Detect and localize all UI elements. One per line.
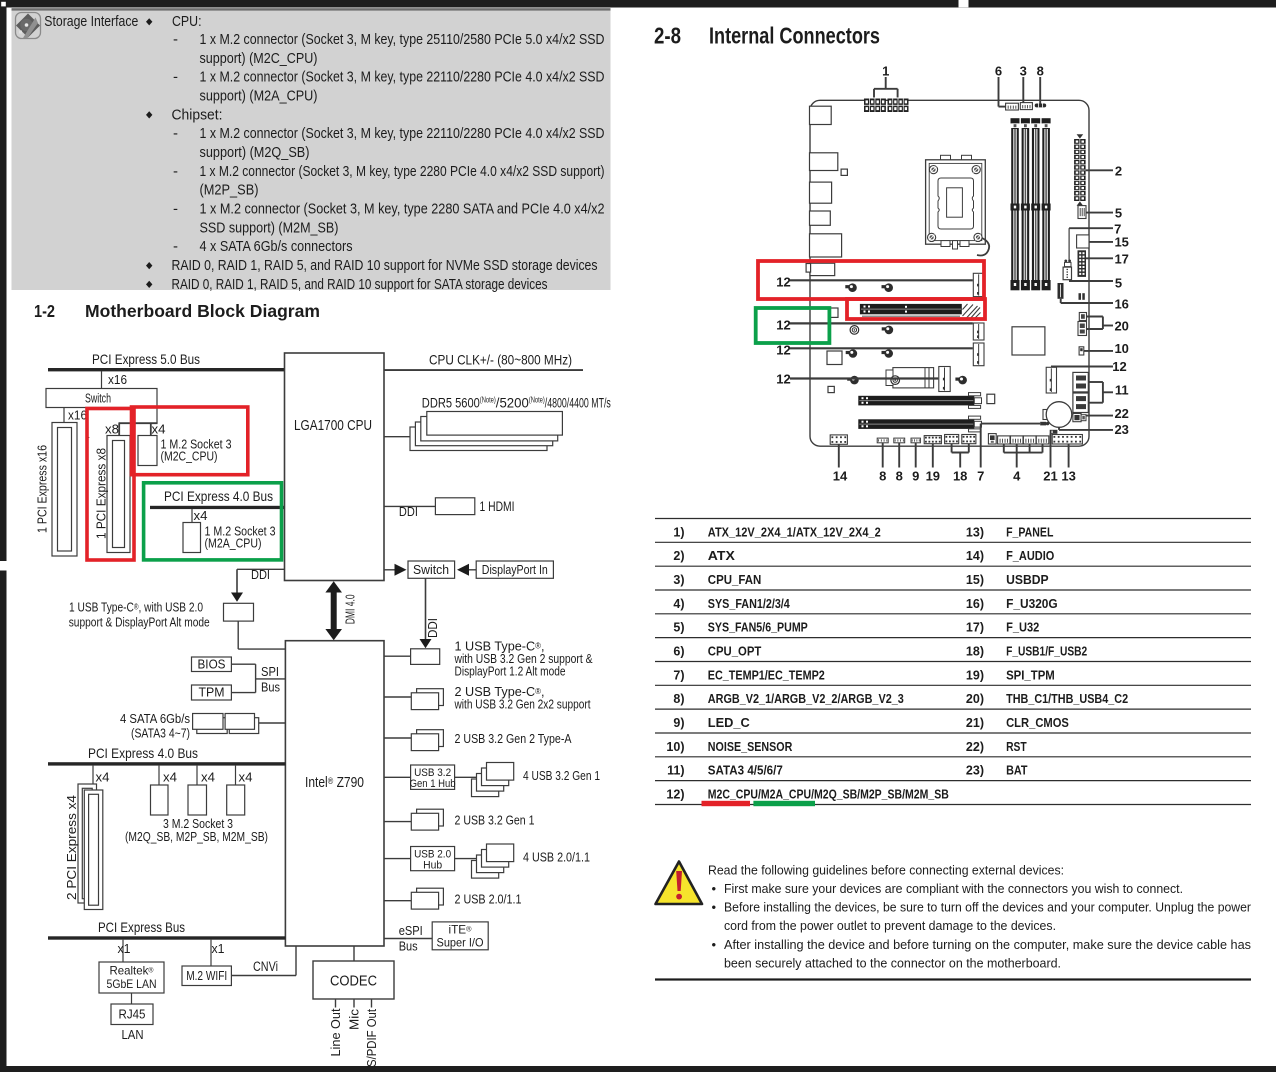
svg-text:RST: RST xyxy=(1006,740,1027,754)
svg-text:DDI: DDI xyxy=(251,567,270,582)
RJ45 box xyxy=(111,1004,153,1025)
svg-text:1 x M.2 connector (Socket 3, M: 1 x M.2 connector (Socket 3, M key, type… xyxy=(200,125,605,142)
spec panel top border xyxy=(12,8,611,10)
ARGB header 8a xyxy=(877,438,888,443)
svg-text:•: • xyxy=(712,881,717,896)
wire: Z790 to USB-C 2x2 xyxy=(384,696,411,698)
svg-text:5: 5 xyxy=(1115,275,1122,290)
svg-text:NOISE_SENSOR: NOISE_SENSOR xyxy=(708,740,793,754)
SYS_FAN4 connector xyxy=(1036,436,1049,444)
callout 8b line xyxy=(898,443,900,468)
svg-text:9: 9 xyxy=(912,468,919,483)
svg-text:DDR5 5600: DDR5 5600 xyxy=(422,394,480,410)
svg-text:5GbE LAN: 5GbE LAN xyxy=(107,977,157,991)
svg-text:RAID 0, RAID 1, RAID 5, and RA: RAID 0, RAID 1, RAID 5, and RAID 10 supp… xyxy=(172,276,548,293)
svg-text:9): 9) xyxy=(673,716,684,730)
svg-text:-: - xyxy=(173,69,178,86)
ARGB header 8b xyxy=(894,438,905,443)
M.2 row2 heatsink hatch xyxy=(963,304,981,320)
svg-text:Switch: Switch xyxy=(85,391,111,405)
M.2 row2 standoff rail xyxy=(862,315,960,317)
svg-text:(M2P_SB): (M2P_SB) xyxy=(200,182,259,199)
2 PCIe x4 slots xyxy=(78,784,103,910)
THB_C1 connector (20a) xyxy=(1079,313,1086,321)
svg-text:11: 11 xyxy=(1115,383,1129,398)
svg-text:16: 16 xyxy=(1114,297,1128,312)
label 1 M.2 Socket 3 (M2A_CPU) xyxy=(205,523,276,550)
svg-text:19: 19 xyxy=(926,468,940,483)
2 USB 3.2 Gen 1 boxes xyxy=(411,809,443,830)
iTE Super I/O box xyxy=(432,922,488,950)
svg-text:CODEC: CODEC xyxy=(330,974,377,990)
svg-text:2-8: 2-8 xyxy=(654,23,681,49)
svg-text:1 PCI Express x8: 1 PCI Express x8 xyxy=(94,448,109,539)
section title 1-2 Motherboard Block Diagram xyxy=(34,301,320,321)
wire: x1 stub LAN xyxy=(122,940,124,962)
M.2 row4 screw a xyxy=(847,376,859,385)
svg-text:Before installing the devices,: Before installing the devices, be sure t… xyxy=(724,900,1252,915)
callout 12 #2 line xyxy=(790,322,973,324)
svg-text:M.2 WIFI: M.2 WIFI xyxy=(186,968,227,983)
svg-text:1 PCI Express x16: 1 PCI Express x16 xyxy=(35,445,50,533)
svg-text:First make sure your devices a: First make sure your devices are complia… xyxy=(724,881,1183,896)
svg-text:F_AUDIO: F_AUDIO xyxy=(1006,549,1054,563)
M.2 row4 slot connector xyxy=(939,367,950,392)
svg-text:16): 16) xyxy=(966,597,984,611)
PCIe x16 slot upper (board) xyxy=(858,393,981,409)
svg-text:2 USB 3.2 Gen 1: 2 USB 3.2 Gen 1 xyxy=(455,813,535,828)
svg-text:PCI Express 4.0 Bus: PCI Express 4.0 Bus xyxy=(164,488,273,504)
svg-text:BAT: BAT xyxy=(1006,764,1028,778)
top-middle white handle square xyxy=(959,0,969,7)
label eSPI Bus xyxy=(399,923,423,954)
svg-text:Internal Connectors: Internal Connectors xyxy=(709,23,880,49)
svg-text:x8: x8 xyxy=(105,421,119,436)
svg-text:BIOS: BIOS xyxy=(198,656,226,671)
callout 4 bracket xyxy=(1004,444,1043,468)
callout 15 line xyxy=(1089,241,1113,243)
arrow into USB-C r1 from DP drop xyxy=(0,0,1,1)
ATX 12V connector 1 (left block) xyxy=(864,99,886,113)
labels x4 row xyxy=(96,770,253,785)
svg-text:Chipset:: Chipset: xyxy=(172,106,223,123)
label 1 USB Type-C Gen2 DP1.2 xyxy=(454,639,593,679)
svg-text:15: 15 xyxy=(1114,235,1128,250)
DMI 4.0 double arrow xyxy=(325,581,342,640)
green highlight 12 label (board) xyxy=(756,308,830,343)
SATA3 ports 4/5 (11a) xyxy=(1073,372,1088,392)
svg-text:Bus: Bus xyxy=(399,939,418,954)
svg-text:After installing the device an: After installing the device and before t… xyxy=(724,937,1251,952)
rear panel block 2 xyxy=(810,153,838,171)
svg-text:CPU:: CPU: xyxy=(172,13,202,30)
2 USB 3.2 Gen 2 Type-A boxes xyxy=(411,730,443,751)
label 4 SATA 6Gb/s (SATA3 4~7) xyxy=(120,711,190,741)
wire: PCI Express 4.0 bus (lower) xyxy=(48,762,285,765)
wire: hub to 4xUSB2.0 xyxy=(455,858,487,860)
SYS_FAN2 connector xyxy=(1011,436,1024,444)
DIMM slot 3 xyxy=(1031,118,1040,290)
connector table rows (left column) xyxy=(666,525,948,801)
spec bullet CPU xyxy=(146,13,202,30)
svg-text:S/PDIF Out: S/PDIF Out xyxy=(364,1009,379,1067)
svg-text:Line Out: Line Out xyxy=(328,1008,343,1056)
svg-text:-: - xyxy=(173,125,178,142)
wire: CNVi link xyxy=(231,946,296,976)
svg-text:12: 12 xyxy=(1112,359,1126,374)
wire: x1 stub WIFI xyxy=(210,940,212,966)
2 USB 2.0/1.1 boxes xyxy=(411,888,443,909)
ATX 12V connector 1 (right block) xyxy=(888,99,909,113)
Switch box (DisplayPort) xyxy=(408,561,455,578)
callout 12 #1 line xyxy=(790,279,973,281)
svg-text:x4: x4 xyxy=(194,508,208,523)
svg-text:23): 23) xyxy=(966,764,984,778)
wire: PCI Express bus (bottom) xyxy=(48,936,285,939)
svg-text:8: 8 xyxy=(879,468,886,483)
svg-text:F_U320G: F_U320G xyxy=(1006,597,1058,611)
callout 23 line xyxy=(1059,427,1113,430)
rear panel block 3 xyxy=(810,182,832,203)
red highlight around PCIe x8 slot xyxy=(87,409,134,561)
svg-text:6): 6) xyxy=(673,644,684,658)
svg-text:12: 12 xyxy=(776,317,790,332)
wire: CPU CLK line xyxy=(384,369,583,371)
RST button (22) xyxy=(1073,414,1086,422)
svg-text:x1: x1 xyxy=(212,941,225,956)
SYS_FAN1 connector xyxy=(998,436,1010,444)
svg-text:DMI 4.0: DMI 4.0 xyxy=(343,594,358,624)
svg-text:•: • xyxy=(712,937,717,952)
svg-text:Realtek®: Realtek® xyxy=(110,964,155,978)
svg-text:F_U32: F_U32 xyxy=(1006,621,1039,635)
svg-text:11): 11) xyxy=(667,764,684,778)
label 1 USB Type-C with USB 2.0 support xyxy=(69,600,210,630)
SYS_FAN3 connector xyxy=(1023,436,1036,444)
connector table rules xyxy=(655,519,1251,805)
USB Type-C left port box xyxy=(224,603,254,621)
LGA1700 CPU socket xyxy=(926,155,990,255)
svg-text:x4: x4 xyxy=(96,770,110,785)
TPM box xyxy=(192,684,232,700)
svg-text:1): 1) xyxy=(673,525,684,539)
board hole square b xyxy=(828,386,834,392)
svg-text:1 HDMI: 1 HDMI xyxy=(480,499,515,514)
svg-text:18): 18) xyxy=(966,644,984,658)
red highlight M2C area (board) xyxy=(758,261,984,299)
svg-text:-: - xyxy=(173,201,178,218)
svg-text:x16: x16 xyxy=(108,372,127,387)
chipset heatsink square xyxy=(1012,327,1045,355)
wire+arrow: DP switch down to USB-C right xyxy=(420,578,432,648)
svg-text:4 USB 2.0/1.1: 4 USB 2.0/1.1 xyxy=(523,850,590,865)
svg-text:17: 17 xyxy=(1114,252,1128,267)
svg-text:Bus: Bus xyxy=(261,680,280,695)
callout 10 line xyxy=(1084,350,1113,352)
page left black bar xyxy=(0,0,7,1072)
svg-text:LGA1700 CPU: LGA1700 CPU xyxy=(294,417,372,434)
svg-text:support & DisplayPort Alt mode: support & DisplayPort Alt mode xyxy=(69,615,210,630)
svg-text:1: 1 xyxy=(882,64,889,79)
CPU_FAN connector (3) xyxy=(1020,103,1032,110)
callout 5 lower line xyxy=(1069,280,1113,282)
wire: USB-C left to Z790 xyxy=(238,621,285,649)
svg-text:4 x SATA 6Gb/s connectors: 4 x SATA 6Gb/s connectors xyxy=(200,238,353,255)
svg-text:4): 4) xyxy=(673,597,684,611)
section title 2-8 Internal Connectors xyxy=(654,23,880,49)
svg-text:(M2Q_SB, M2P_SB, M2M_SB): (M2Q_SB, M2P_SB, M2M_SB) xyxy=(125,829,268,844)
CPU_OPT fan connector (6) xyxy=(1006,103,1019,110)
red underline under M2C_CPU xyxy=(702,801,751,806)
svg-text:(SATA3 4~7): (SATA3 4~7) xyxy=(131,726,190,741)
svg-text:CPU_OPT: CPU_OPT xyxy=(708,644,762,658)
HDMI port box xyxy=(435,498,474,515)
svg-text:SPI: SPI xyxy=(261,664,279,679)
M.2 WIFI box xyxy=(182,966,231,986)
svg-text:21: 21 xyxy=(1043,468,1057,483)
svg-text:13: 13 xyxy=(1061,468,1075,483)
spec text list xyxy=(146,31,605,293)
svg-text:1 USB Type-C®, with USB 2.0: 1 USB Type-C®, with USB 2.0 xyxy=(69,600,203,615)
svg-text:1-2: 1-2 xyxy=(34,301,55,321)
svg-text:22): 22) xyxy=(966,740,984,754)
storage interface spec panel xyxy=(12,8,611,290)
svg-text:2: 2 xyxy=(1115,163,1122,178)
DIMM slot 2 xyxy=(1021,118,1030,290)
svg-text:14: 14 xyxy=(833,468,848,483)
svg-text:1 x M.2 connector (Socket 3, M: 1 x M.2 connector (Socket 3, M key, type… xyxy=(200,69,605,86)
svg-text:•: • xyxy=(712,900,717,915)
svg-text:4 SATA 6Gb/s: 4 SATA 6Gb/s xyxy=(120,711,190,726)
callout 7 lower line xyxy=(981,424,1040,468)
label SPI Bus xyxy=(261,664,280,695)
svg-text:2 USB 2.0/1.1: 2 USB 2.0/1.1 xyxy=(455,892,522,907)
connector table rows (right column) xyxy=(966,525,1128,777)
svg-text:1 x M.2 connector (Socket 3, M: 1 x M.2 connector (Socket 3, M key, type… xyxy=(200,163,605,180)
small box near green rect xyxy=(829,308,838,317)
wire: SATA to Z790 xyxy=(259,722,286,724)
svg-text:15): 15) xyxy=(966,573,984,587)
wire: Z790 to USB 3.2 Gen2 Type-A xyxy=(384,737,411,739)
green underline under M2A_CPU xyxy=(753,801,815,806)
callout 1 bracket xyxy=(874,77,898,98)
callout 2 line xyxy=(1086,169,1113,171)
wire+arrow: CPU DDI down to USB-C left xyxy=(231,569,285,602)
svg-text:eSPI: eSPI xyxy=(399,923,423,938)
svg-text:20): 20) xyxy=(966,692,984,706)
svg-text:DDI: DDI xyxy=(399,504,418,519)
wire: Z790 to USB-C r1 xyxy=(384,655,411,657)
svg-text:7: 7 xyxy=(977,468,984,483)
svg-text:x4: x4 xyxy=(163,770,177,785)
page bottom black bar xyxy=(0,1066,1276,1072)
callout 7 upper line xyxy=(1069,228,1113,261)
SYS_FAN6_PUMP connector (5 lower) xyxy=(1063,267,1071,280)
M.2 row1 standoff screw a xyxy=(845,283,857,292)
CODEC box xyxy=(313,961,394,999)
svg-text:support) (M2Q_SB): support) (M2Q_SB) xyxy=(200,144,310,161)
board hole square a xyxy=(827,351,842,365)
svg-text:with USB 3.2 Gen 2x2 support: with USB 3.2 Gen 2x2 support xyxy=(454,696,591,711)
wire+arrow: DisplayPort In to switch xyxy=(457,564,476,576)
LED_C header (9) xyxy=(911,438,920,443)
M.2 row1 slot connector xyxy=(973,273,984,296)
M.2 row4 wifi shield box xyxy=(886,368,934,388)
warning guidelines text xyxy=(708,863,1252,971)
svg-text:8: 8 xyxy=(896,468,903,483)
DIMM slot 4 xyxy=(1042,118,1051,290)
M.2 row2b screw b xyxy=(882,326,894,335)
svg-text:17): 17) xyxy=(966,621,984,635)
DDR5 label with notes xyxy=(422,394,611,410)
page top black bar xyxy=(0,0,1276,8)
callout 12 #4 line xyxy=(790,377,938,379)
svg-text:/5200: /5200 xyxy=(496,394,529,410)
red highlight M2A slot (board) xyxy=(847,299,985,319)
svg-text:-: - xyxy=(173,163,178,180)
wire: hub to 4xUSB3.2 xyxy=(455,776,487,778)
THB_USB4_C2 connector (20b) xyxy=(1078,322,1087,336)
svg-text:x1: x1 xyxy=(118,941,131,956)
callout 6 line xyxy=(999,77,1006,107)
svg-text:ATX_12V_2X4_1/ATX_12V_2X4_2: ATX_12V_2X4_1/ATX_12V_2X4_2 xyxy=(708,525,881,539)
svg-text:x16: x16 xyxy=(68,408,87,423)
svg-text:5: 5 xyxy=(1115,206,1122,221)
EC_TEMP2 sensor connector xyxy=(1040,422,1049,426)
callout 8 line xyxy=(1039,77,1041,104)
wire: Z790 to 2xUSB3.2Gen1 xyxy=(384,821,411,823)
M.2 row3 screw a xyxy=(846,349,858,358)
SATA connectors xyxy=(193,714,259,734)
wire: CPU DDI to HDMI xyxy=(384,505,435,507)
svg-text:12): 12) xyxy=(666,787,684,801)
svg-text:ARGB_V2_1/ARGB_V2_2/ARGB_V2_3: ARGB_V2_1/ARGB_V2_2/ARGB_V2_3 xyxy=(708,692,904,706)
svg-text:10: 10 xyxy=(1114,341,1128,356)
svg-text:x4: x4 xyxy=(201,770,215,785)
SPI_TPM connector (19) xyxy=(924,436,941,444)
svg-text:12: 12 xyxy=(776,274,790,289)
svg-text:3): 3) xyxy=(673,573,684,587)
svg-text:RAID 0, RAID 1, RAID 5, and RA: RAID 0, RAID 1, RAID 5, and RAID 10 supp… xyxy=(172,257,598,274)
svg-text:23: 23 xyxy=(1114,422,1128,437)
callout 18 bracket xyxy=(952,444,969,468)
svg-text:4: 4 xyxy=(1013,468,1021,483)
svg-text:THB_C1/THB_USB4_C2: THB_C1/THB_USB4_C2 xyxy=(1006,692,1128,706)
CMOS battery xyxy=(1043,402,1072,428)
M.2 socket M2C_CPU box xyxy=(138,436,157,466)
svg-text:2): 2) xyxy=(673,549,684,563)
callout 21 line xyxy=(1050,434,1052,468)
svg-text:SSD support) (M2M_SB): SSD support) (M2M_SB) xyxy=(200,219,339,236)
PCIe x8 slot xyxy=(107,436,130,553)
wire: Realtek to RJ45 xyxy=(131,993,133,1004)
USBDP connector (15) xyxy=(1077,235,1089,248)
callout 3 line xyxy=(1022,77,1024,103)
svg-text:4 USB 3.2 Gen 1: 4 USB 3.2 Gen 1 xyxy=(523,768,600,783)
svg-text:7): 7) xyxy=(673,668,684,682)
wire: eSPI bus xyxy=(384,938,432,940)
svg-text:13): 13) xyxy=(966,525,984,539)
board hole square c xyxy=(987,394,995,403)
svg-text:1 x M.2 connector (Socket 3, M: 1 x M.2 connector (Socket 3, M key, type… xyxy=(200,201,605,218)
DIMM slot 1 xyxy=(1011,118,1020,290)
label 3 M.2 Socket 3 xyxy=(125,816,268,844)
svg-text:ATX: ATX xyxy=(708,549,736,563)
LGA1700 CPU box xyxy=(285,353,385,581)
motherboard outline xyxy=(810,100,1089,446)
M.2 row1 standoff screw b xyxy=(882,283,894,292)
BIOS box xyxy=(192,656,232,671)
svg-text:x4: x4 xyxy=(239,770,253,785)
svg-text:6: 6 xyxy=(995,64,1002,79)
svg-text:/4800/4400 MT/s: /4800/4400 MT/s xyxy=(545,394,611,410)
svg-text:DisplayPort In: DisplayPort In xyxy=(482,562,548,577)
Intel Z790 chipset box xyxy=(285,641,384,946)
2 USB Type-C 2x2 boxes xyxy=(411,689,443,710)
svg-text:Read the following guidelines: Read the following guidelines before con… xyxy=(708,863,1064,878)
4 USB 3.2 Gen 1 stack xyxy=(472,763,514,797)
SYS_FAN5 connector (5 upper) xyxy=(1078,206,1086,219)
M.2 row3 screw b xyxy=(882,349,894,358)
svg-text:PCI Express Bus: PCI Express Bus xyxy=(98,919,185,935)
NOISE_SENSOR connector (10) xyxy=(1079,347,1084,355)
svg-text:Motherboard Block Diagram: Motherboard Block Diagram xyxy=(85,301,320,321)
PCIe x16 slot xyxy=(52,423,77,557)
callout 22 line xyxy=(1086,415,1113,417)
24-pin ATX connector (2) xyxy=(1074,139,1086,201)
F_PANEL connector (13) xyxy=(1052,435,1082,445)
svg-text:cord from the power outlet to: cord from the power outlet to prevent da… xyxy=(724,918,1056,933)
M.2 row3 slot connector xyxy=(973,343,984,366)
wire+arrow: CPU to DP switch xyxy=(384,564,407,576)
F_U320G connector (16) xyxy=(1058,283,1064,299)
storage icon xyxy=(16,13,41,39)
svg-text:PCI Express 5.0 Bus: PCI Express 5.0 Bus xyxy=(92,351,200,367)
svg-text:CPU CLK+/- (80~800 MHz): CPU CLK+/- (80~800 MHz) xyxy=(429,352,572,368)
svg-text:DisplayPort 1.2 Alt mode: DisplayPort 1.2 Alt mode xyxy=(455,663,566,678)
svg-text:M2C_CPU/M2A_CPU/M2Q_SB/M2P_SB/: M2C_CPU/M2A_CPU/M2Q_SB/M2P_SB/M2M_SB xyxy=(708,787,949,801)
bottom rule of right page xyxy=(655,978,1251,980)
svg-text:Intel® Z790: Intel® Z790 xyxy=(305,774,364,791)
svg-text:Mic: Mic xyxy=(347,1008,362,1030)
svg-text:(Note): (Note) xyxy=(529,395,545,404)
svg-text:CLR_CMOS: CLR_CMOS xyxy=(1006,716,1069,730)
svg-text:(M2C_CPU): (M2C_CPU) xyxy=(161,448,218,463)
callout 9 line xyxy=(915,443,917,468)
callout 13 line xyxy=(1068,444,1070,468)
callout 12 #3 line xyxy=(790,347,973,349)
Realtek 5GbE LAN box xyxy=(99,962,164,993)
svg-text:USBDP: USBDP xyxy=(1006,573,1049,587)
svg-text:PCI Express 4.0 Bus: PCI Express 4.0 Bus xyxy=(88,745,198,761)
svg-text:8: 8 xyxy=(1037,64,1044,79)
svg-text:-: - xyxy=(173,31,178,48)
svg-text:LAN: LAN xyxy=(122,1027,144,1042)
small aux connector xyxy=(988,434,996,444)
svg-text:Super I/O: Super I/O xyxy=(437,936,484,950)
SATA3 ports 6/7 (11b) xyxy=(1073,393,1088,413)
callout 8a line xyxy=(882,443,884,468)
svg-text:18: 18 xyxy=(953,468,967,483)
wire: bus4 to M2A stub xyxy=(191,509,193,523)
svg-text:Switch: Switch xyxy=(413,562,449,577)
svg-text:-: - xyxy=(173,238,178,255)
svg-text:2 USB 3.2 Gen 2 Type-A: 2 USB 3.2 Gen 2 Type-A xyxy=(455,731,572,746)
svg-text:(M2A_CPU): (M2A_CPU) xyxy=(205,535,262,550)
rear panel small square xyxy=(841,169,847,175)
left-middle white handle square xyxy=(0,561,7,571)
rear panel block 6 xyxy=(806,263,835,275)
